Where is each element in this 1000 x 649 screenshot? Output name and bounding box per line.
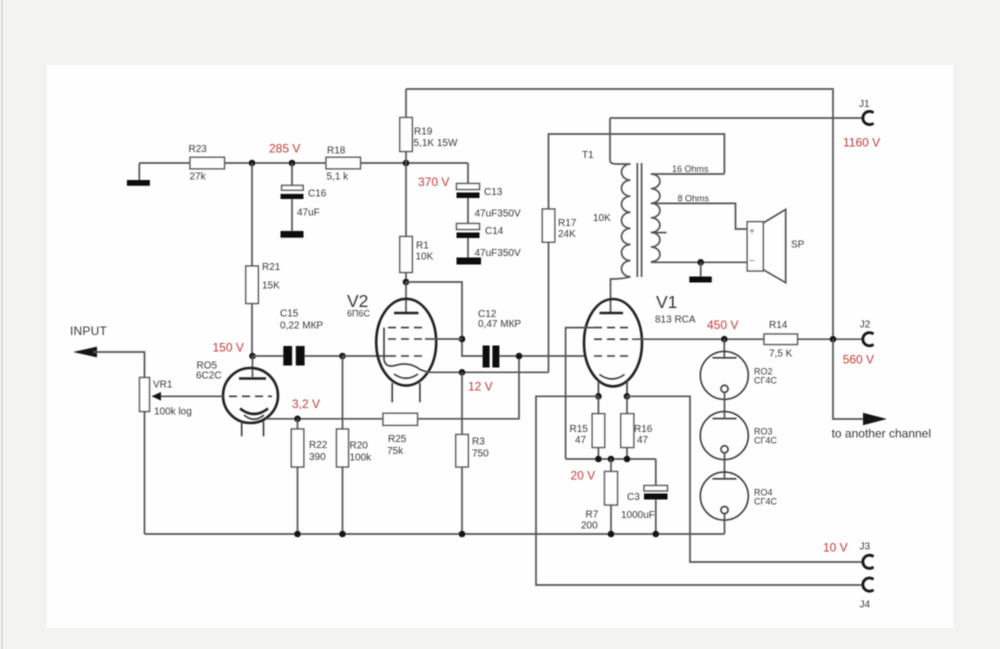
node V1 grid junction	[516, 353, 523, 360]
resistor R14	[764, 334, 798, 345]
input arrow	[73, 347, 97, 358]
svg-text:6П6С: 6П6С	[347, 309, 370, 319]
svg-text:370 V: 370 V	[418, 175, 449, 189]
svg-text:СГ4С: СГ4С	[754, 497, 777, 507]
svg-text:V1: V1	[656, 292, 677, 312]
svg-text:J3: J3	[860, 542, 871, 553]
svg-text:R21: R21	[262, 262, 281, 273]
svg-text:C14: C14	[485, 226, 504, 237]
transformer T1 primary	[610, 118, 631, 313]
svg-text:+: +	[749, 227, 755, 238]
wiper arrow into VR1	[152, 392, 162, 401]
ground (input bias)	[127, 163, 150, 186]
svg-text:J2: J2	[860, 320, 871, 331]
svg-text:20 V: 20 V	[571, 469, 596, 483]
svg-text:−: −	[749, 256, 755, 267]
svg-text:3,2 V: 3,2 V	[292, 397, 320, 411]
svg-text:VR1: VR1	[153, 380, 173, 391]
node V2 anode junction	[403, 279, 410, 286]
svg-text:6C2C: 6C2C	[196, 371, 222, 382]
svg-text:R16: R16	[634, 424, 653, 435]
svg-text:27k: 27k	[190, 172, 207, 183]
node V1 filament right junction	[624, 393, 631, 400]
svg-text:560 V: 560 V	[843, 353, 874, 367]
arrow to another channel	[863, 413, 887, 425]
resistor R7	[605, 459, 618, 534]
svg-text:285 V: 285 V	[269, 142, 300, 156]
svg-text:390: 390	[309, 452, 326, 463]
capacitor C14	[457, 224, 480, 258]
svg-text:C16: C16	[308, 189, 327, 200]
svg-text:R25: R25	[388, 434, 407, 445]
svg-text:1160 V: 1160 V	[843, 136, 880, 150]
wire: VR1 wiper to RO5 grid	[159, 395, 223, 397]
node R15 rail junction	[595, 456, 602, 463]
wire: V1 grid3 stub and drop	[566, 328, 594, 459]
svg-text:24K: 24K	[558, 229, 576, 240]
wire: 285V rail left	[139, 162, 190, 164]
capacitor C13	[457, 163, 480, 224]
node secondary ground junction	[697, 259, 704, 266]
white drawing sheet	[47, 65, 953, 628]
tube RO4	[700, 472, 748, 534]
svg-text:R3: R3	[472, 437, 485, 448]
svg-text:СГ4С: СГ4С	[754, 436, 777, 446]
svg-text:47uF350V: 47uF350V	[475, 209, 521, 220]
wire: unused tap stub	[651, 232, 667, 234]
svg-text:5,1K 15W: 5,1K 15W	[414, 138, 458, 149]
wire: V2 cathode line 12V	[426, 371, 549, 373]
wire: 16 ohm tap	[651, 173, 725, 175]
svg-text:15K: 15K	[262, 281, 280, 292]
svg-text:R7: R7	[586, 510, 599, 521]
svg-text:J1: J1	[859, 99, 870, 110]
svg-text:12 V: 12 V	[468, 380, 493, 394]
svg-text:R17: R17	[558, 218, 577, 229]
ground (C13 C14)	[457, 258, 482, 265]
svg-text:10K: 10K	[416, 252, 434, 263]
speaker SP	[747, 209, 786, 282]
svg-text:R14: R14	[769, 320, 788, 331]
node V2 grid junction	[339, 353, 346, 360]
svg-text:10K: 10K	[593, 213, 611, 224]
svg-text:R15: R15	[570, 424, 589, 435]
wire: VR1 bottom to ground bus	[144, 412, 146, 535]
svg-text:INPUT: INPUT	[70, 324, 107, 338]
svg-text:R18: R18	[327, 146, 346, 157]
svg-text:47: 47	[637, 435, 649, 446]
wire: grid node into V2	[343, 355, 389, 357]
node V2 cathode junction	[459, 369, 466, 376]
node R7 rail junction	[608, 456, 615, 463]
wire: V1 screen to 450V line	[632, 338, 764, 340]
svg-text:813 RCA: 813 RCA	[655, 315, 696, 326]
svg-text:0,22 МКР: 0,22 МКР	[280, 321, 323, 332]
wire: to another channel drop	[833, 339, 864, 419]
svg-text:C13: C13	[484, 187, 503, 198]
transformer T1 secondary	[651, 174, 660, 262]
svg-text:R23: R23	[189, 144, 208, 155]
resistor R1	[400, 163, 413, 282]
node R22 ground junction	[294, 531, 301, 538]
ground (secondary)	[689, 262, 712, 282]
connector J1	[863, 111, 874, 124]
connector J4	[863, 578, 874, 591]
svg-text:47: 47	[575, 435, 587, 446]
svg-text:10 V: 10 V	[823, 541, 848, 555]
node C16 junction	[289, 160, 296, 167]
node RO5 cathode junction	[294, 416, 301, 423]
svg-text:R1: R1	[416, 241, 429, 252]
node 370V junction	[403, 160, 410, 167]
resistor R19	[400, 89, 413, 163]
svg-text:750: 750	[472, 449, 489, 460]
svg-text:C15: C15	[280, 309, 299, 320]
node V1 filament left junction	[595, 393, 602, 400]
svg-text:450 V: 450 V	[707, 318, 738, 332]
svg-text:100k log: 100k log	[154, 407, 192, 418]
node C3 ground junction	[653, 531, 660, 538]
svg-text:R19: R19	[414, 127, 433, 138]
node V2 screen junction	[459, 336, 466, 343]
wire: 20V rail	[566, 458, 656, 460]
svg-text:47uF: 47uF	[297, 208, 320, 219]
resistor R18	[326, 157, 361, 169]
resistor R21	[246, 163, 258, 356]
svg-text:1000uF: 1000uF	[621, 510, 655, 521]
wire: filament right to J3	[627, 396, 862, 562]
tube V1	[584, 299, 642, 396]
wire: R18 to 370V node to C13	[361, 162, 469, 164]
capacitor C3	[644, 459, 668, 534]
svg-text:T1: T1	[582, 150, 594, 161]
wire: 150V node to C15	[253, 355, 284, 357]
wire: 8 ohm tap to speaker plus	[651, 203, 747, 229]
wire: J1 line	[610, 117, 862, 119]
svg-text:R20: R20	[350, 441, 369, 452]
wire: filament left to J4	[536, 396, 862, 585]
resistor R25	[383, 413, 418, 425]
svg-text:to another channel: to another channel	[832, 427, 931, 441]
wire: ground bus	[145, 533, 725, 535]
ground (C16)	[281, 231, 304, 238]
wire: secondary bottom to speaker minus	[651, 261, 747, 263]
tube RO3	[700, 412, 748, 479]
node R7 ground junction	[608, 531, 615, 538]
svg-text:150 V: 150 V	[213, 341, 244, 355]
wire: input line	[93, 352, 145, 378]
svg-text:C3: C3	[627, 492, 640, 503]
resistor R22	[291, 419, 304, 534]
node R20 ground junction	[339, 531, 346, 538]
resistor R23	[190, 157, 225, 169]
resistor R16	[621, 396, 634, 459]
resistor R20	[337, 356, 349, 534]
wire: anode node to screen drop to C12	[406, 282, 483, 356]
resistor R15	[592, 396, 605, 459]
wire: V2 screen tap	[425, 338, 462, 340]
svg-text:0,47 МКР: 0,47 МКР	[478, 319, 521, 330]
svg-text:SP: SP	[791, 240, 805, 251]
wire: R23 to C16 node	[225, 162, 327, 164]
resistor R3	[456, 372, 469, 534]
wire: top rail	[406, 89, 833, 340]
tube RO2	[700, 339, 748, 418]
svg-text:R22: R22	[309, 440, 328, 451]
connector J2	[863, 333, 874, 346]
transformer T1 core	[637, 163, 641, 277]
resistor R17	[542, 134, 724, 372]
svg-text:16 Ohms: 16 Ohms	[672, 164, 709, 174]
svg-text:47uF350V: 47uF350V	[475, 248, 521, 259]
wire: R25 to V1 grid riser	[418, 356, 520, 419]
capacitor C12	[483, 346, 585, 368]
svg-text:5,1 k: 5,1 k	[327, 172, 350, 183]
svg-text:75k: 75k	[387, 446, 404, 457]
svg-text:СГ4С: СГ4С	[754, 376, 777, 386]
svg-text:100k: 100k	[350, 453, 373, 464]
node 150V junction (RO5 plate)	[249, 353, 256, 360]
connector J3	[863, 555, 874, 568]
capacitor C15	[283, 346, 342, 366]
node 285V junction R21	[249, 160, 256, 167]
tube V2	[376, 282, 436, 402]
wire: R14 to J2	[798, 338, 862, 340]
svg-text:7,5 K: 7,5 K	[769, 349, 793, 360]
svg-text:200: 200	[581, 521, 598, 532]
node RO2 junction 450V	[721, 336, 728, 343]
potentiometer VR1	[140, 378, 150, 412]
svg-text:8 Ohms: 8 Ohms	[678, 194, 710, 204]
node R16 rail junction	[624, 456, 631, 463]
node J2 junction	[830, 336, 837, 343]
tube RO5	[223, 356, 278, 436]
svg-text:J4: J4	[860, 600, 871, 611]
wire: RO5 cathode line	[266, 418, 383, 420]
node R3 ground junction	[459, 531, 466, 538]
capacitor C16	[281, 163, 304, 231]
